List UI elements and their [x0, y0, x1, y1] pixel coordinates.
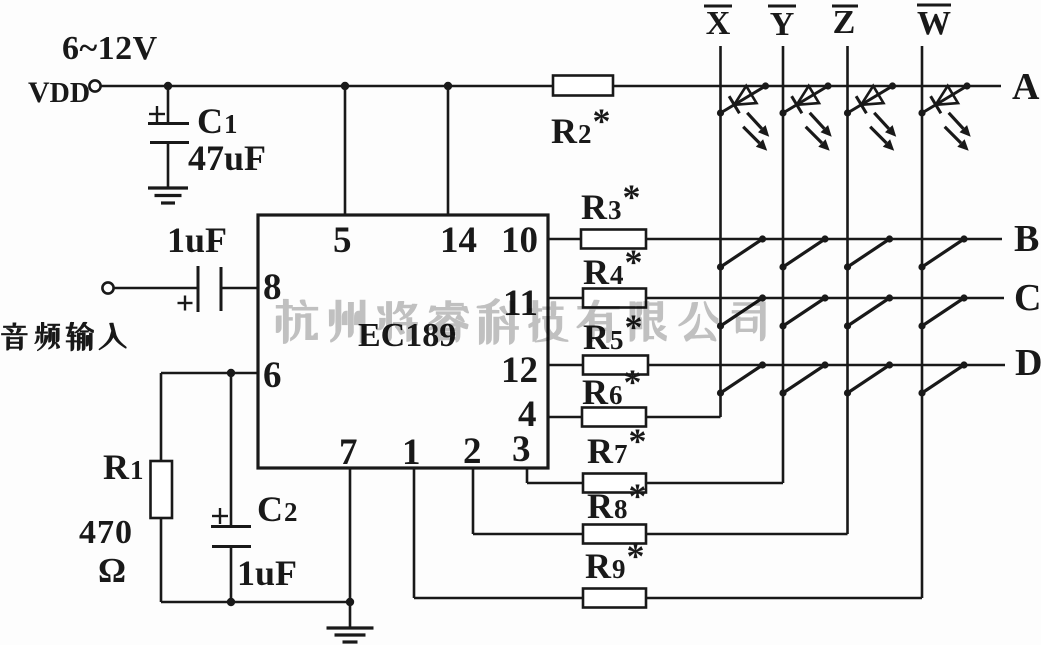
- switch diode row C column Z: [848, 298, 890, 326]
- wire pin 4 row: [548, 416, 721, 419]
- wire column X: [719, 46, 722, 417]
- resistor R5: [583, 356, 648, 375]
- capacitor 1uF coupling plates: [197, 266, 200, 312]
- switch diode row D column Z: [848, 365, 890, 393]
- resistor R3: [581, 230, 646, 249]
- switch diode row D column Y: [783, 365, 825, 393]
- svg-text:8: 8: [263, 267, 282, 308]
- switch diode row D column X: [721, 365, 763, 393]
- svg-text:6: 6: [263, 355, 282, 396]
- resistor R4: [583, 289, 646, 308]
- node junction pin14: [444, 82, 452, 90]
- capacitor C2 polarity plus: [212, 515, 228, 517]
- svg-text:470: 470: [79, 514, 133, 551]
- wire ground bus bottom: [161, 601, 350, 604]
- switch diode row B column W: [922, 239, 964, 267]
- resistor R6: [582, 408, 646, 427]
- svg-text:5: 5: [333, 220, 352, 261]
- svg-text:D: D: [1015, 342, 1041, 384]
- op-amp U1 EC189 IC body: [258, 215, 548, 468]
- wire VDD to C1: [167, 86, 170, 123]
- svg-text:Z: Z: [833, 4, 856, 41]
- svg-text:1uF: 1uF: [167, 220, 227, 260]
- resistor R7: [583, 474, 646, 493]
- svg-text:7: 7: [339, 432, 358, 473]
- switch diode row D column W: [922, 365, 964, 393]
- switch diode row B column Z: [848, 239, 890, 267]
- switch diode row C column W: [922, 298, 964, 326]
- wire pin 1 stub: [413, 468, 416, 598]
- wire R2 to A terminus: [613, 85, 1001, 88]
- switch diode row C column X: [721, 298, 763, 326]
- wire pin 3 stub: [526, 468, 529, 483]
- wire pin 12 row D: [548, 364, 1005, 367]
- node junction C2 bottom: [227, 598, 235, 606]
- capacitor C2 plates: [211, 525, 251, 528]
- svg-text:12: 12: [501, 350, 538, 391]
- svg-text:1: 1: [402, 432, 421, 473]
- wire pin 7: [349, 468, 352, 628]
- wire pin 3 row: [527, 482, 783, 485]
- svg-text:X: X: [706, 5, 731, 42]
- resistor R8: [583, 525, 646, 544]
- wire column Z: [846, 46, 849, 534]
- wire pin 11 row C: [548, 297, 1004, 300]
- resistor R2: [553, 76, 613, 96]
- VDD input terminal: [89, 80, 100, 91]
- node junction pin5: [341, 82, 349, 90]
- capacitor C2 wire top: [230, 373, 233, 526]
- wire C1 to ground: [167, 142, 170, 188]
- svg-text:W: W: [917, 5, 951, 42]
- ground C1: [148, 186, 188, 189]
- svg-text:C: C: [1014, 277, 1041, 319]
- svg-text:Ω: Ω: [98, 551, 126, 590]
- wire column Y: [782, 46, 785, 483]
- switch diode row B column X: [721, 239, 763, 267]
- input terminal: [102, 282, 113, 293]
- watermark (decorative): [277, 299, 765, 344]
- svg-text:VDD: VDD: [28, 76, 90, 109]
- capacitor C1 47uF plates: [148, 122, 189, 125]
- wire input to coupling cap: [114, 287, 198, 290]
- resistor R1 wire top: [160, 373, 163, 461]
- ground pin 7: [327, 626, 374, 629]
- switch diode row C column Y: [783, 298, 825, 326]
- svg-text:B: B: [1014, 218, 1039, 260]
- label audio input (Chinese): [2, 323, 28, 350]
- capacitor C2 wire bottom: [230, 546, 233, 602]
- LED D2 column Y: [783, 86, 828, 113]
- svg-text:A: A: [1012, 66, 1040, 108]
- wire pin 5: [344, 86, 347, 215]
- capacitor C1 polarity plus: [149, 113, 165, 115]
- wire pin 1 row: [414, 597, 922, 600]
- wire cap to pin 8: [221, 287, 258, 290]
- svg-text:10: 10: [501, 220, 538, 261]
- svg-text:1uF: 1uF: [237, 553, 297, 593]
- LED D1 column X: [721, 86, 766, 113]
- node junction C2 top: [227, 369, 235, 377]
- wire column W: [921, 46, 924, 598]
- svg-text:Y: Y: [770, 6, 795, 43]
- wire VDD rail to R2: [101, 85, 553, 88]
- resistor R9: [583, 589, 646, 608]
- resistor R1 470 ohm: [151, 461, 173, 518]
- capacitor coupling polarity plus: [178, 302, 193, 304]
- wire pin 2 row: [473, 533, 848, 536]
- svg-text:47uF: 47uF: [188, 138, 266, 178]
- resistor R1 wire bottom: [160, 518, 163, 602]
- svg-text:2: 2: [463, 431, 482, 472]
- svg-text:6~12V: 6~12V: [62, 30, 158, 67]
- wire pin 2 stub: [472, 468, 475, 534]
- LED D3 column Z: [848, 86, 893, 113]
- LED D4 column W: [922, 86, 967, 113]
- svg-text:14: 14: [440, 220, 477, 261]
- switch diode row B column Y: [783, 239, 825, 267]
- node junction pin7 ground: [346, 598, 354, 606]
- node junction C1: [164, 82, 172, 90]
- wire pin 14: [447, 86, 450, 215]
- svg-text:3: 3: [512, 429, 531, 470]
- wire pin 10 row B: [548, 238, 1002, 241]
- wire pin 6: [161, 372, 258, 375]
